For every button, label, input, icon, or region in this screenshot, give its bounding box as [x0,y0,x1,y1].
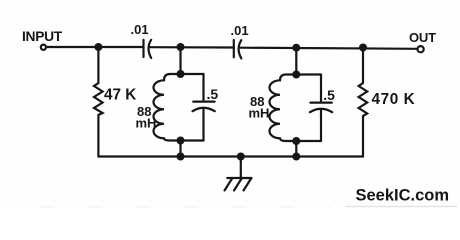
ground symbol stem [240,157,242,179]
capacitor C2 .01 right curved plate [239,40,242,58]
capacitor C4 .5 curved plate [310,109,332,113]
ground symbol hatch 3 [225,178,233,191]
svg-text:SeekIC.com: SeekIC.com [356,187,450,205]
capacitor C4 .5 top lead in tank 2 [320,75,322,101]
capacitor C2 .01 left plate [233,40,235,57]
junction dot: top rail / R2 [359,44,367,52]
ground symbol hatch 2 [234,178,242,191]
svg-text:mH: mH [136,116,157,131]
wire: top rail, input terminal to C1 [47,46,144,48]
svg-text:.5: .5 [207,86,219,102]
wire: stem from top rail down to tank 1 [179,47,181,74]
watermark faint baseline [345,206,457,208]
capacitor C3 .5 top lead in tank 1 [202,74,204,100]
junction dot: top rail / tank1 stem [177,43,185,51]
capacitor C1 .01 left plate [142,40,144,57]
wire: stem from top rail down to tank 2 [295,48,297,75]
capacitor C1 .01 right curved plate [149,40,152,58]
junction dot: tank1 stem / ground rail [177,153,185,161]
output terminal circle [418,46,424,52]
junction dot: top rail / R1 [94,43,102,51]
junction dot: tank2 bottom rail [292,137,300,145]
junction dot: tank1 top rail [177,70,185,78]
ground symbol hatch 1 [244,178,252,191]
capacitor C4 .5 bottom lead [320,109,322,141]
junction dot: tank1 bottom rail [177,137,185,145]
input terminal circle [41,45,46,50]
capacitor C3 .5 bottom lead [202,108,204,140]
junction dot: tank2 top rail [292,71,300,79]
inductor L2 88mH with tank2 top/bottom rails [270,75,322,142]
resistor R2 470K right shunt branch [359,48,368,157]
wire: bottom ground rail [98,155,363,157]
svg-text:INPUT: INPUT [22,29,63,44]
wire: top rail, C2 to OUT terminal [241,48,418,49]
svg-text:mH: mH [249,106,270,121]
svg-text:470 K: 470 K [372,91,416,108]
svg-text:47 K: 47 K [104,87,136,104]
inductor L1 88mH with tank1 top/bottom rails [154,74,204,141]
resistor R1 47K left shunt branch [94,47,103,157]
svg-text:.01: .01 [231,23,249,38]
capacitor C3 .5 curved plate [193,108,215,112]
junction dot: top rail / tank2 stem [292,44,300,52]
wire: stem tank 2 bottom rail to ground rail [295,141,297,157]
junction dot: tank2 stem / ground rail [292,153,300,161]
capacitor C3 .5 flat plate [193,100,214,102]
junction dot: ground rail / ground symbol [237,153,245,161]
wire: stem tank 1 bottom rail to ground rail [179,141,181,157]
wire: top rail, C1 to C2 [150,46,234,48]
svg-text:.5: .5 [323,87,335,103]
faint scan artifact dashes bottom left [40,206,330,208]
capacitor C4 .5 flat plate [310,101,331,103]
ground symbol bar [227,177,251,179]
svg-text:.01: .01 [131,22,149,37]
svg-text:OUT: OUT [409,30,436,45]
